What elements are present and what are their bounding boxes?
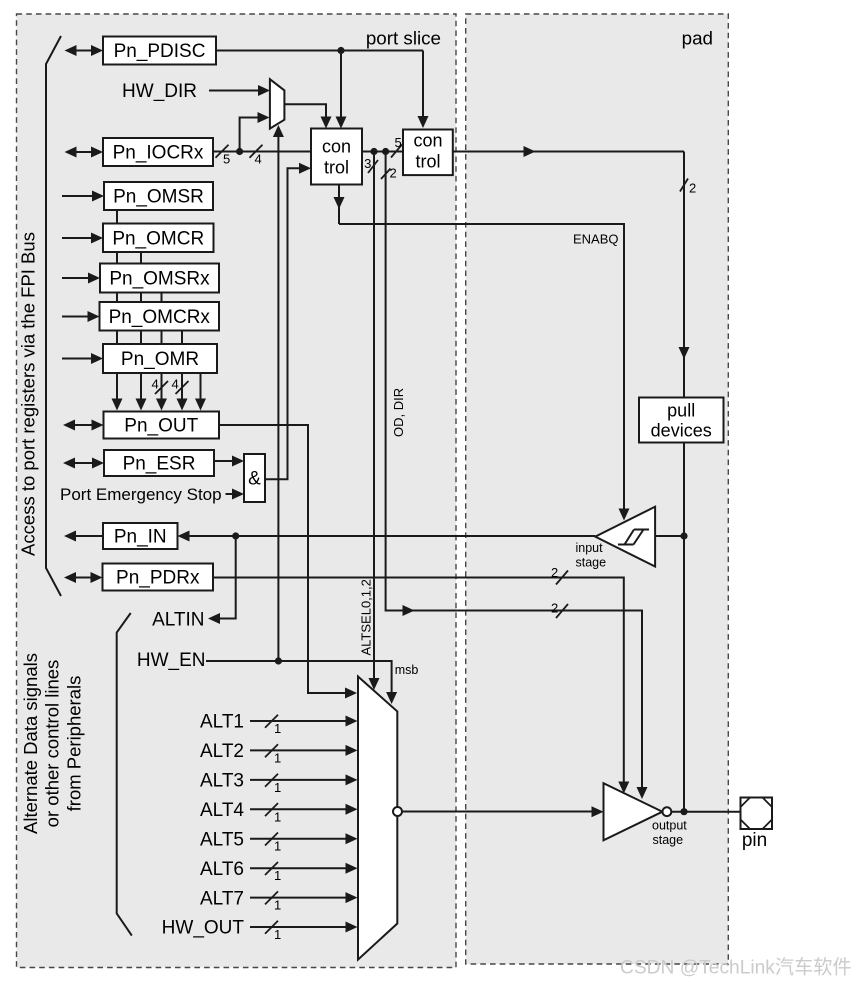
svg-text:HW_EN: HW_EN <box>137 650 206 671</box>
svg-text:1: 1 <box>274 898 281 913</box>
svg-text:port slice: port slice <box>366 27 441 48</box>
bus width 4 slash (left) <box>155 381 168 394</box>
wire: output stage to pin <box>671 811 740 813</box>
svg-text:ALT5: ALT5 <box>200 829 244 850</box>
svg-text:ALT2: ALT2 <box>200 741 244 762</box>
register Pn_PDRx <box>103 564 214 591</box>
svg-text:Pn_OMR: Pn_OMR <box>121 349 199 370</box>
wire: PDISC junction down to control U1 <box>340 51 342 121</box>
register Pn_IOCRx <box>103 138 213 166</box>
register Pn_IN <box>103 523 178 549</box>
svg-text:ALT6: ALT6 <box>200 859 244 880</box>
svg-text:msb: msb <box>395 663 419 677</box>
wire: Pn_PDRx output to output stage <box>213 578 624 789</box>
wire: FPI bidirectional arrow to Pn_PDISC <box>74 50 95 52</box>
wire: Pn_OMSR to Pn_OMCR stub <box>116 210 118 224</box>
svg-text:ALT1: ALT1 <box>200 712 244 733</box>
wire: FPI write arrow to Pn_OMSRx <box>62 277 92 279</box>
bus width 3 slash on ALTSEL line <box>368 160 378 173</box>
junction on Pn_PDISC wire <box>337 47 344 54</box>
wire: FPI bidirectional arrow to Pn_PDRx <box>73 577 94 579</box>
wire: Pn_ESR output to AND gate <box>214 460 236 462</box>
svg-text:Alternate Data signals: Alternate Data signals <box>20 653 41 834</box>
buffer: input stage with hysteresis <box>595 507 655 567</box>
junction on IOCRx wire <box>236 148 243 155</box>
svg-text:Pn_PDRx: Pn_PDRx <box>116 568 200 589</box>
svg-text:1: 1 <box>274 839 281 854</box>
svg-text:4: 4 <box>152 377 159 392</box>
register Pn_PDISC <box>103 37 216 65</box>
junction: pad node at pin wire <box>680 808 687 815</box>
wire: Pn_OMSRx to Pn_OMCRx stubs <box>116 293 118 303</box>
svg-text:Pn_ESR: Pn_ESR <box>123 454 196 475</box>
svg-text:devices: devices <box>651 421 712 441</box>
register Pn_OMCR <box>103 224 214 253</box>
svg-text:Port Emergency Stop: Port Emergency Stop <box>60 485 222 504</box>
wire: Pn_OMR to Pn_OUT arrows <box>116 373 118 403</box>
bus width 2 slash on PDRx wire <box>556 571 568 585</box>
wire: pad net vertical to pull devices <box>683 152 685 398</box>
svg-text:pull: pull <box>667 401 695 421</box>
svg-text:1: 1 <box>274 780 281 795</box>
svg-text:trol: trol <box>415 152 440 172</box>
register Pn_OMSR <box>104 182 213 210</box>
wire: input stage to Pn_IN <box>185 535 595 537</box>
wire: HW_DIR into mux M1 <box>209 90 262 92</box>
wire: IOCRx branch to mux M1 <box>240 118 261 152</box>
svg-text:2: 2 <box>390 166 397 181</box>
wire: control U2 output into pad <box>453 151 684 153</box>
svg-text:2: 2 <box>551 601 558 616</box>
bus width 2 slash on pad net <box>680 179 688 192</box>
wire: OD DIR line down and right to output stage <box>386 152 642 795</box>
svg-text:1: 1 <box>274 927 281 942</box>
svg-text:stage: stage <box>576 555 607 569</box>
junction: pad node at input stage <box>680 532 687 539</box>
buffer: output stage <box>604 783 663 840</box>
svg-text:&: & <box>248 469 261 490</box>
wire: HW_EN to mux M2 msb select <box>206 661 392 699</box>
wire: FPI write arrow to Pn_OMCRx <box>62 316 92 318</box>
svg-text:ALT4: ALT4 <box>200 800 244 821</box>
svg-text:1: 1 <box>274 750 281 765</box>
svg-text:ALTSEL0,1,2: ALTSEL0,1,2 <box>358 579 373 655</box>
svg-text:HW_DIR: HW_DIR <box>122 81 197 102</box>
op block: control U1 <box>311 129 362 185</box>
brace: access to FPI bus bracket <box>46 36 61 596</box>
pin pad symbol <box>741 798 773 830</box>
wire: Pn_IOCRx output to control U1 <box>213 151 311 153</box>
svg-text:trol: trol <box>324 158 349 178</box>
bus width 5 slash on IOCRx wire <box>216 145 229 158</box>
bus width 2 slash on OD DIR vertical <box>381 169 391 180</box>
register Pn_OMR <box>103 344 217 373</box>
junction: OD-DIR tap <box>382 148 389 155</box>
wire: FPI read arrow from Pn_IN <box>72 535 103 537</box>
svg-text:1: 1 <box>274 809 281 824</box>
wire: ALTSEL0,1,2 select line to mux M2 <box>373 152 375 686</box>
svg-text:1: 1 <box>274 721 281 736</box>
svg-text:4: 4 <box>172 377 179 392</box>
svg-text:Pn_OMSR: Pn_OMSR <box>113 187 204 208</box>
bus width 2 slash on OD DIR horizontal <box>556 604 568 618</box>
svg-text:Pn_OUT: Pn_OUT <box>124 416 198 437</box>
wire: mux M1 output to control U1 <box>284 104 326 121</box>
wire: pull devices down to pad node <box>683 443 685 812</box>
bus width 4 slash on IOCRx wire <box>250 145 263 158</box>
svg-text:2: 2 <box>551 565 558 580</box>
svg-text:Pn_PDISC: Pn_PDISC <box>114 41 206 62</box>
op block: control U2 <box>403 130 453 176</box>
svg-text:5: 5 <box>395 135 402 150</box>
wire: Pn_OUT output to mux M2 input 0 <box>219 425 350 693</box>
wire: FPI bidirectional arrow to Pn_ESR <box>72 462 95 464</box>
region: pad (dashed box) <box>466 14 729 964</box>
svg-text:HW_OUT: HW_OUT <box>162 918 245 939</box>
register Pn_OMSRx <box>100 264 219 293</box>
svg-text:con: con <box>322 137 351 157</box>
svg-text:OD, DIR: OD, DIR <box>391 388 406 437</box>
gate: AND (emergency stop) G1 <box>244 454 265 502</box>
wire: HW_EN up into mux M1 bottom <box>277 131 279 661</box>
svg-text:Pn_IN: Pn_IN <box>114 527 167 548</box>
svg-text:Pn_OMSRx: Pn_OMSRx <box>109 269 210 290</box>
region: port slice (dashed box) <box>17 14 457 968</box>
svg-text:con: con <box>413 131 442 151</box>
svg-text:ALT7: ALT7 <box>200 888 244 909</box>
svg-text:5: 5 <box>223 152 230 167</box>
brace: alternate signals bracket <box>117 613 132 936</box>
svg-text:output: output <box>652 819 687 833</box>
svg-text:Pn_IOCRx: Pn_IOCRx <box>113 143 204 164</box>
output stage bubble <box>663 807 672 816</box>
wire: FPI write arrow to Pn_OMCR <box>62 237 95 239</box>
wire: Port Emergency Stop to AND gate <box>226 493 237 495</box>
wire: Pn_PDISC output <box>216 50 423 52</box>
svg-text:2: 2 <box>689 181 696 196</box>
wire: mux M2 output to output stage <box>402 811 595 813</box>
svg-text:ENABQ: ENABQ <box>573 231 619 246</box>
register Pn_ESR <box>104 450 214 476</box>
junction: ALTSEL tap <box>370 148 377 155</box>
register Pn_OMCRx <box>100 302 220 331</box>
wire: control U1 ENABQ output <box>338 185 340 225</box>
wire: input stage tap from pad node <box>655 535 684 537</box>
wire: FPI write arrow to Pn_OMR <box>62 358 95 360</box>
wire: AND gate output up to control U1 <box>265 168 303 479</box>
bus width 5 slash before control U2 <box>391 145 402 158</box>
hysteresis symbol <box>618 530 649 545</box>
svg-text:3: 3 <box>364 156 371 171</box>
mux M2 (alternate output select) <box>358 677 397 960</box>
svg-text:pad: pad <box>682 27 713 48</box>
svg-text:1: 1 <box>274 868 281 883</box>
register Pn_OUT <box>104 412 220 439</box>
op block: pull devices <box>639 398 724 443</box>
wire: PDISC to control U2 <box>422 51 424 121</box>
svg-text:input: input <box>576 541 604 555</box>
junction on HW_EN wire <box>275 657 282 664</box>
wire: Pn_OMCR to Pn_OMSRx stubs <box>116 252 118 264</box>
wire: FPI write arrow to Pn_OMSR <box>62 195 96 197</box>
bus width 4 slash (right) <box>176 381 189 394</box>
mux M1 (direction select) <box>270 79 285 128</box>
wire: ALTIN branch <box>216 536 236 619</box>
mux M2 output bubble <box>393 807 402 816</box>
svg-text:CSDN @TechLink汽车软件: CSDN @TechLink汽车软件 <box>620 957 852 979</box>
svg-text:or other control lines: or other control lines <box>42 660 63 828</box>
wire: FPI bidirectional arrow to Pn_OUT <box>72 424 95 426</box>
svg-text:Access to port registers via t: Access to port registers via the FPI Bus <box>18 232 39 556</box>
wire: FPI bidirectional arrow to Pn_IOCRx <box>74 151 95 153</box>
svg-text:Pn_OMCR: Pn_OMCR <box>112 228 204 249</box>
wire: control U1 to control U2 <box>362 151 403 153</box>
svg-text:from Peripherals: from Peripherals <box>64 676 85 812</box>
svg-text:4: 4 <box>255 152 262 167</box>
svg-text:ALT3: ALT3 <box>200 771 244 792</box>
wire: Pn_OMCRx to Pn_OMR stubs <box>116 331 118 345</box>
svg-text:pin: pin <box>742 830 767 851</box>
svg-text:Pn_OMCRx: Pn_OMCRx <box>109 307 211 328</box>
svg-text:stage: stage <box>653 833 684 847</box>
svg-text:ALTIN: ALTIN <box>152 610 204 631</box>
junction: ALTIN tap <box>232 532 239 539</box>
